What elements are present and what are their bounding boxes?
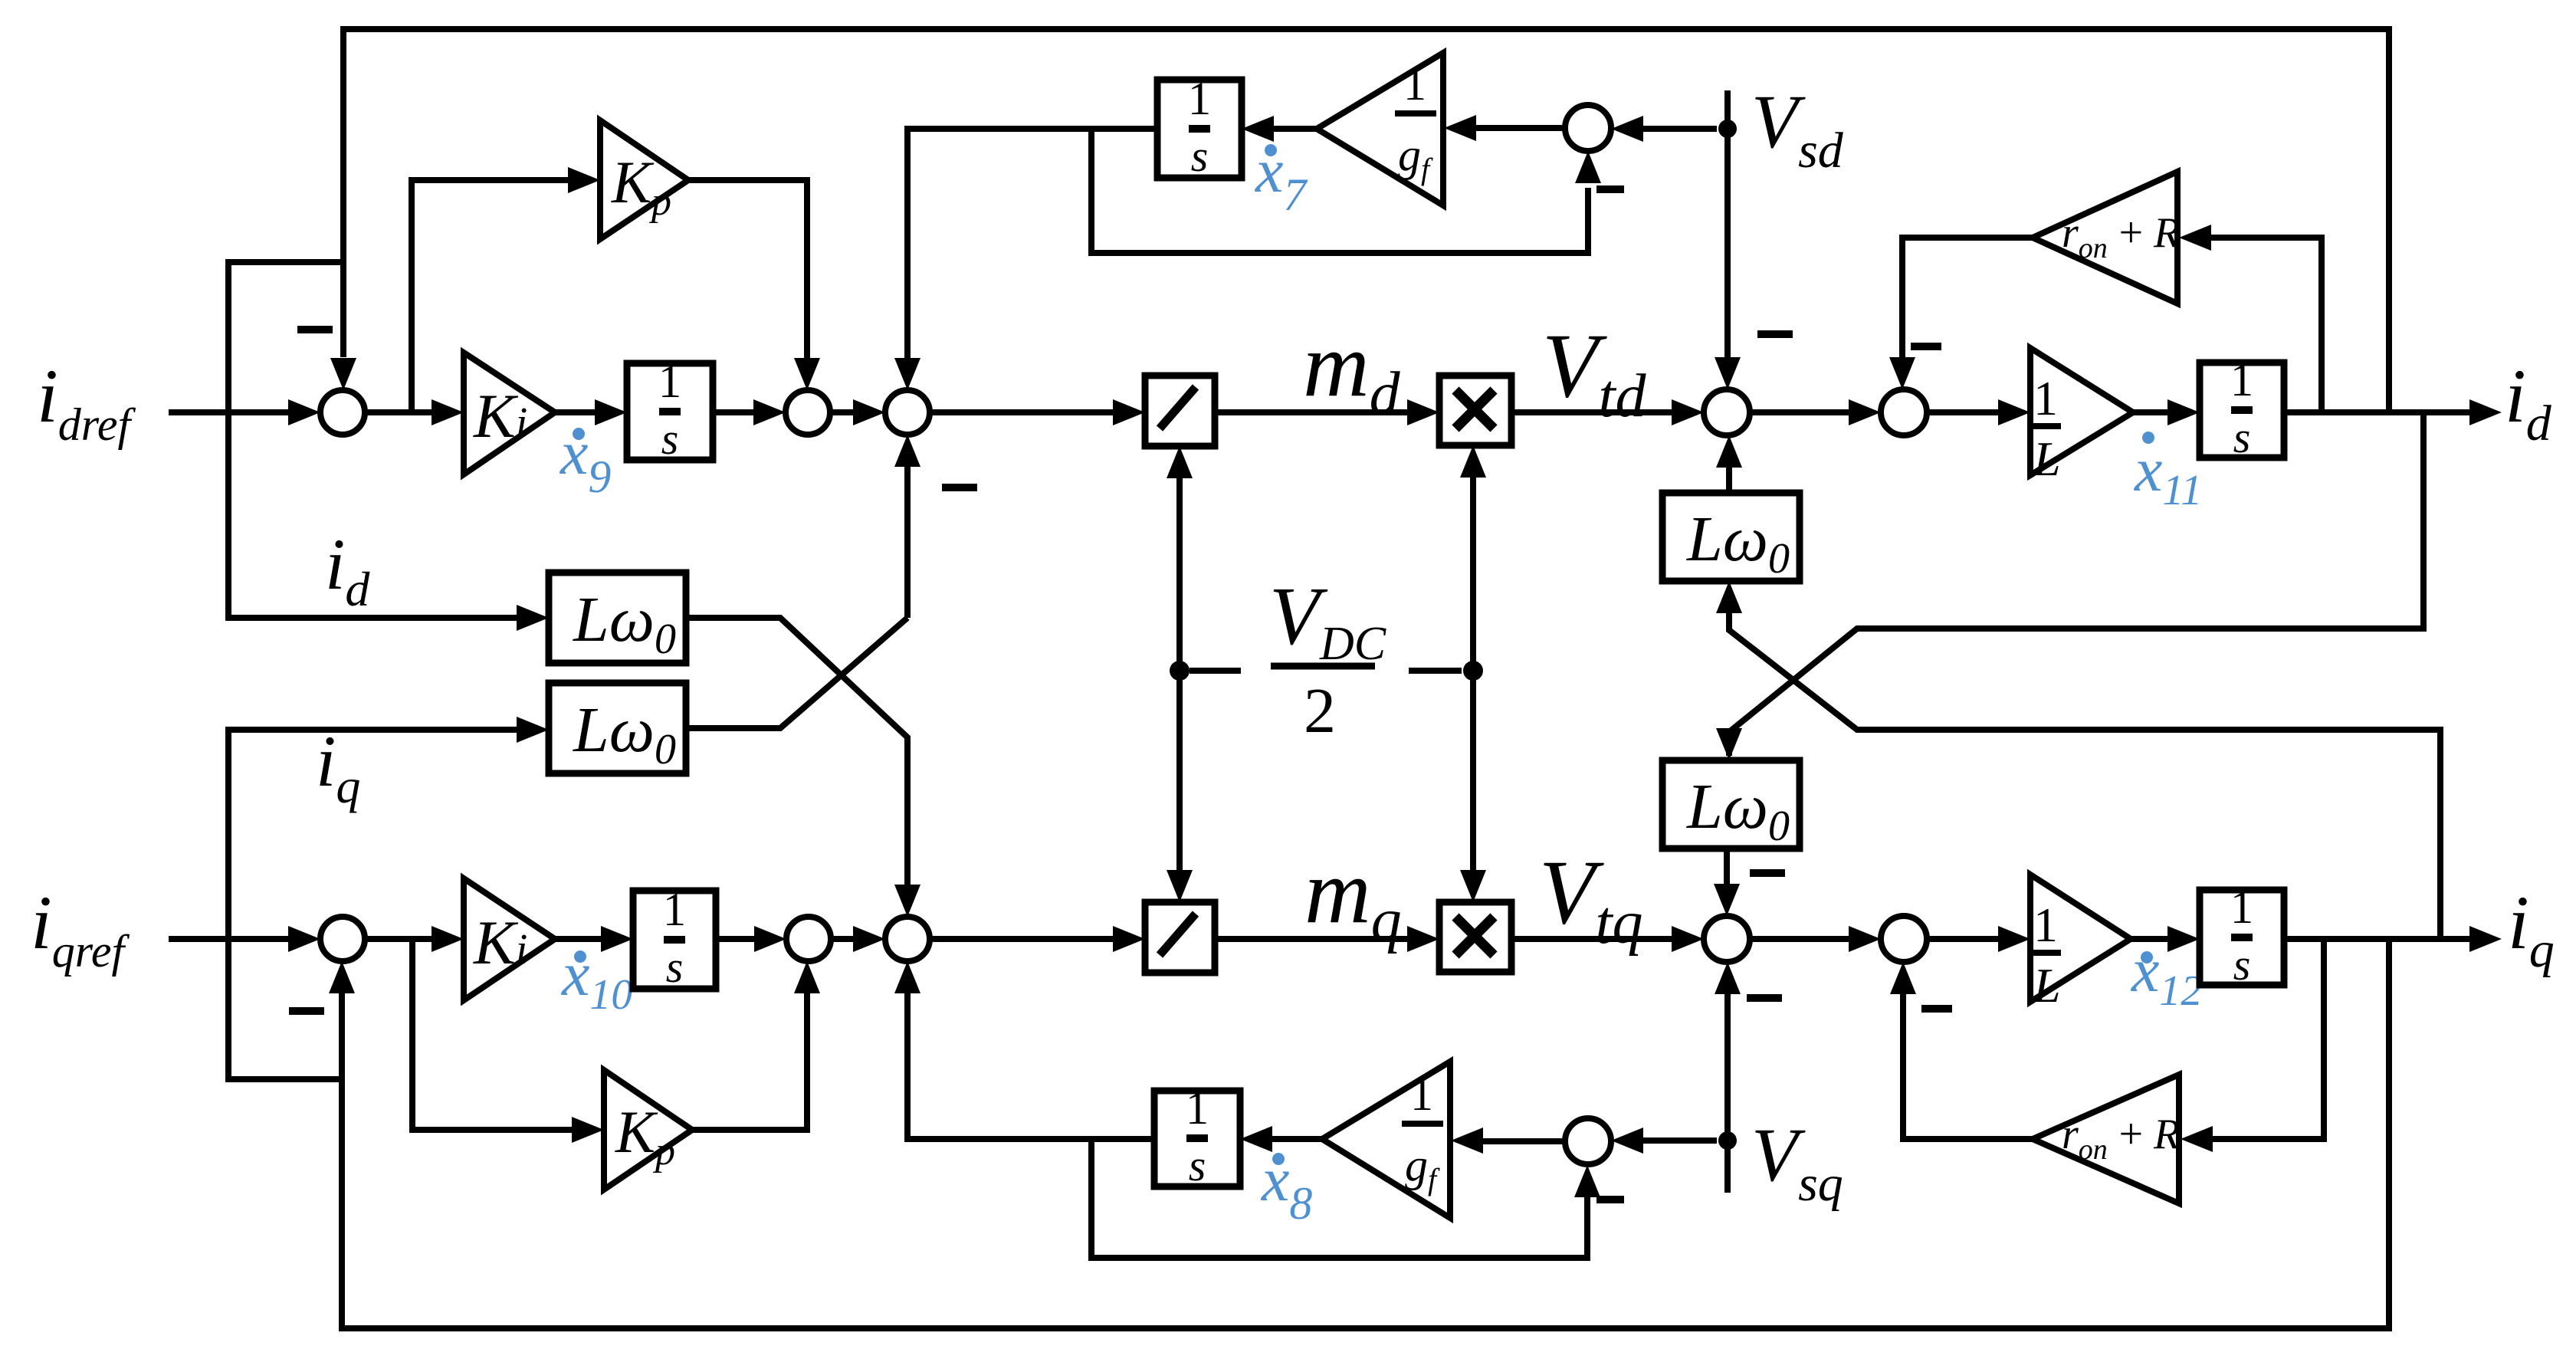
minus sign at S1q (289, 1007, 324, 1015)
wire x10 to S2q (716, 936, 757, 942)
svg-text:1: 1 (663, 885, 687, 936)
summing junction S3q (885, 917, 930, 961)
svg-text:1: 1 (2033, 371, 2058, 425)
summing junction S5d (1881, 389, 1927, 435)
wire V_sq to S6q (1643, 1137, 1717, 1144)
wire S1d to Ki_d (365, 409, 456, 415)
block Lw0 top right (1662, 493, 1800, 581)
state label x11dot (2142, 432, 2154, 444)
minus sign at S3d (942, 484, 977, 491)
svg-text:1: 1 (2230, 882, 2254, 934)
wire S4d to S5d (1750, 409, 1851, 415)
wire divide to multiply q (1215, 936, 1409, 942)
wire cross input to S3d (904, 466, 911, 618)
wire S2d to S3d (830, 409, 876, 415)
multiply block d (1439, 376, 1511, 445)
wire Ki_q to integrator x10 (555, 936, 602, 942)
summing junction S4d (1704, 389, 1750, 435)
wire S6d to 1/gf d (1476, 125, 1565, 131)
gain 1/L d triangle (2030, 348, 2133, 475)
wire i_d cross tap (1729, 412, 2423, 756)
wire Lw0 TR to S4d (1726, 466, 1732, 493)
summing junction S3d (885, 390, 930, 435)
svg-text:1: 1 (1188, 74, 1212, 125)
gain 1/gf q triangle (1322, 1062, 1450, 1218)
state label x7dot (1265, 144, 1277, 156)
svg-text:L: L (2033, 958, 2061, 1013)
wire Kp_d output to S2d (688, 180, 807, 382)
minus sign at S6d (1596, 185, 1624, 193)
wire x8 loop to S6q (1091, 1139, 1587, 1258)
wire branch to Kp_d (412, 180, 592, 412)
minus sign at S6q (1596, 1196, 1624, 1203)
svg-text:1: 1 (1186, 1083, 1209, 1134)
wire multiply to S4q (1511, 936, 1674, 942)
svg-text:s: s (1191, 131, 1209, 181)
wire i_q tap to Lw0 box2 (228, 730, 518, 1079)
integrator 1/s x10 box (633, 891, 716, 989)
wire V_DC to divide d (1176, 477, 1183, 671)
node V_sq junction dot (1718, 1131, 1737, 1150)
block Lw0 box2 (549, 683, 686, 773)
gain Kp_d triangle (600, 120, 688, 239)
svg-text:1: 1 (1410, 1069, 1433, 1120)
minus sign at S1d (297, 326, 333, 333)
wire 1/L to integrator x12 (2131, 936, 2169, 942)
svg-text:1: 1 (2230, 355, 2254, 406)
wire i_d top feedback loop (343, 29, 2389, 412)
summing junction S1q (320, 917, 365, 961)
node V_sd junction dot (1718, 120, 1737, 138)
wire S6q to 1/gf q (1483, 1138, 1565, 1144)
wire x7 loop to S6d (1091, 129, 1588, 253)
svg-text:s: s (2233, 412, 2251, 462)
wire S4q to S5q (1750, 936, 1851, 942)
wire i_d tap to Lw0 box1 (228, 262, 518, 618)
gain 1/gf d triangle (1317, 53, 1443, 205)
wire S2q to S3q (831, 936, 876, 942)
wire i_qref input (169, 936, 312, 942)
summing junction S2q (786, 917, 831, 961)
summing junction S5q (1881, 916, 1927, 962)
wire 1/L to integrator x11 (2133, 409, 2169, 415)
wire S5q to 1/L q (1927, 936, 2000, 942)
svg-text:s: s (1189, 1141, 1206, 1190)
svg-text:s: s (666, 942, 684, 992)
gain Kp_q triangle (604, 1070, 692, 1190)
block Lw0 bottom right (1662, 760, 1800, 849)
node V_DC right dot (1463, 661, 1483, 681)
minus sign at S5d (1911, 343, 1941, 350)
integrator 1/s x12 box (2200, 890, 2284, 985)
integrator 1/s x8 box (1154, 1091, 1240, 1187)
gain ron+R d triangle (2033, 172, 2177, 304)
wire Lw0 box1 diagonal to S3q (686, 618, 907, 886)
integrator 1/s x11 box (2200, 363, 2284, 458)
wire i_q cross tap (1729, 612, 2440, 939)
svg-text:1: 1 (1403, 59, 1426, 110)
state label x10dot (574, 950, 586, 963)
wire x11 output to i_d (2284, 409, 2471, 415)
wire i_d to ron+R d (2210, 238, 2322, 412)
divide block d (1145, 376, 1215, 446)
wire 1/gf q to integrator x8 (1271, 1136, 1322, 1142)
wire V_DC to multiply q (1470, 671, 1476, 872)
state label x9dot (573, 428, 585, 440)
svg-text:L: L (2033, 432, 2061, 486)
wire i_q to ron+R q (2210, 939, 2324, 1139)
wire S3d to divide block (930, 409, 1114, 415)
wire i_dref input (169, 409, 312, 415)
wire V_sd stub to S4d (1724, 90, 1731, 357)
wire x8 output to S3q (907, 993, 1154, 1139)
wire x12 output to i_q (2284, 936, 2471, 942)
wire S3q to divide block q (930, 936, 1114, 942)
svg-text:1: 1 (2033, 898, 2058, 952)
svg-text:1: 1 (658, 356, 682, 408)
wire Kp_q output to S2q (692, 993, 807, 1130)
gain 1/L q triangle (2030, 875, 2131, 1002)
svg-text:s: s (661, 414, 679, 464)
summing junction S2d (786, 390, 830, 435)
summing junction S6d (1565, 105, 1611, 151)
wire V_DC right dash (1409, 668, 1462, 674)
wire ron+R d to S5d (1902, 238, 2033, 357)
wire ron+R q to S5q (1903, 993, 2033, 1139)
divide block q (1145, 902, 1215, 973)
wire Lw0 box2 diagonal to S3d (686, 618, 907, 728)
wire S5d to 1/L d (1927, 409, 2000, 415)
wire V_DC left dash (1190, 668, 1241, 674)
minus sign at S4q top (1750, 869, 1785, 877)
gain Ki_q triangle (464, 878, 555, 1000)
integrator 1/s x7 box (1157, 80, 1242, 178)
state label x12dot (2141, 951, 2153, 963)
summing junction S4q (1704, 916, 1750, 962)
node V_DC left dot (1170, 661, 1190, 681)
minus sign at S4q bottom (1747, 994, 1782, 1002)
wire x7 output to S3d (907, 129, 1157, 360)
summing junction S1d (320, 390, 365, 435)
multiply block q (1439, 902, 1511, 972)
gain Ki_d triangle (464, 353, 555, 474)
wire V_DC to multiply d (1470, 476, 1476, 671)
wire Lw0 BR to S4q (1724, 849, 1730, 885)
state label x8dot (1272, 1153, 1285, 1165)
wire Ki_d to integrator x9 (555, 409, 598, 415)
gain ron+R q triangle (2033, 1075, 2179, 1203)
wire multiply to S4d (1511, 409, 1674, 415)
minus sign at S4d top (1757, 330, 1793, 338)
minus sign at S5q (1921, 1005, 1952, 1013)
block Lw0 box1 (549, 573, 686, 663)
wire 1/gf d to integrator x7 (1272, 126, 1317, 132)
wire V_sd to S6d (1643, 126, 1717, 132)
wire i_q bottom feedback loop (342, 939, 2389, 1328)
svg-text:s: s (2233, 940, 2251, 990)
wire branch to Kp_q (412, 939, 596, 1130)
svg-text:2: 2 (1304, 675, 1336, 747)
summing junction S6q (1565, 1118, 1611, 1164)
wire V_sq stub to S4q (1724, 993, 1731, 1193)
wire S1q to Ki_q (365, 936, 456, 942)
wire V_DC to divide q (1176, 671, 1183, 872)
integrator 1/s x9 box (627, 363, 713, 460)
wire divide to multiply d (1215, 409, 1409, 415)
wire x9 to S2d (713, 409, 756, 415)
